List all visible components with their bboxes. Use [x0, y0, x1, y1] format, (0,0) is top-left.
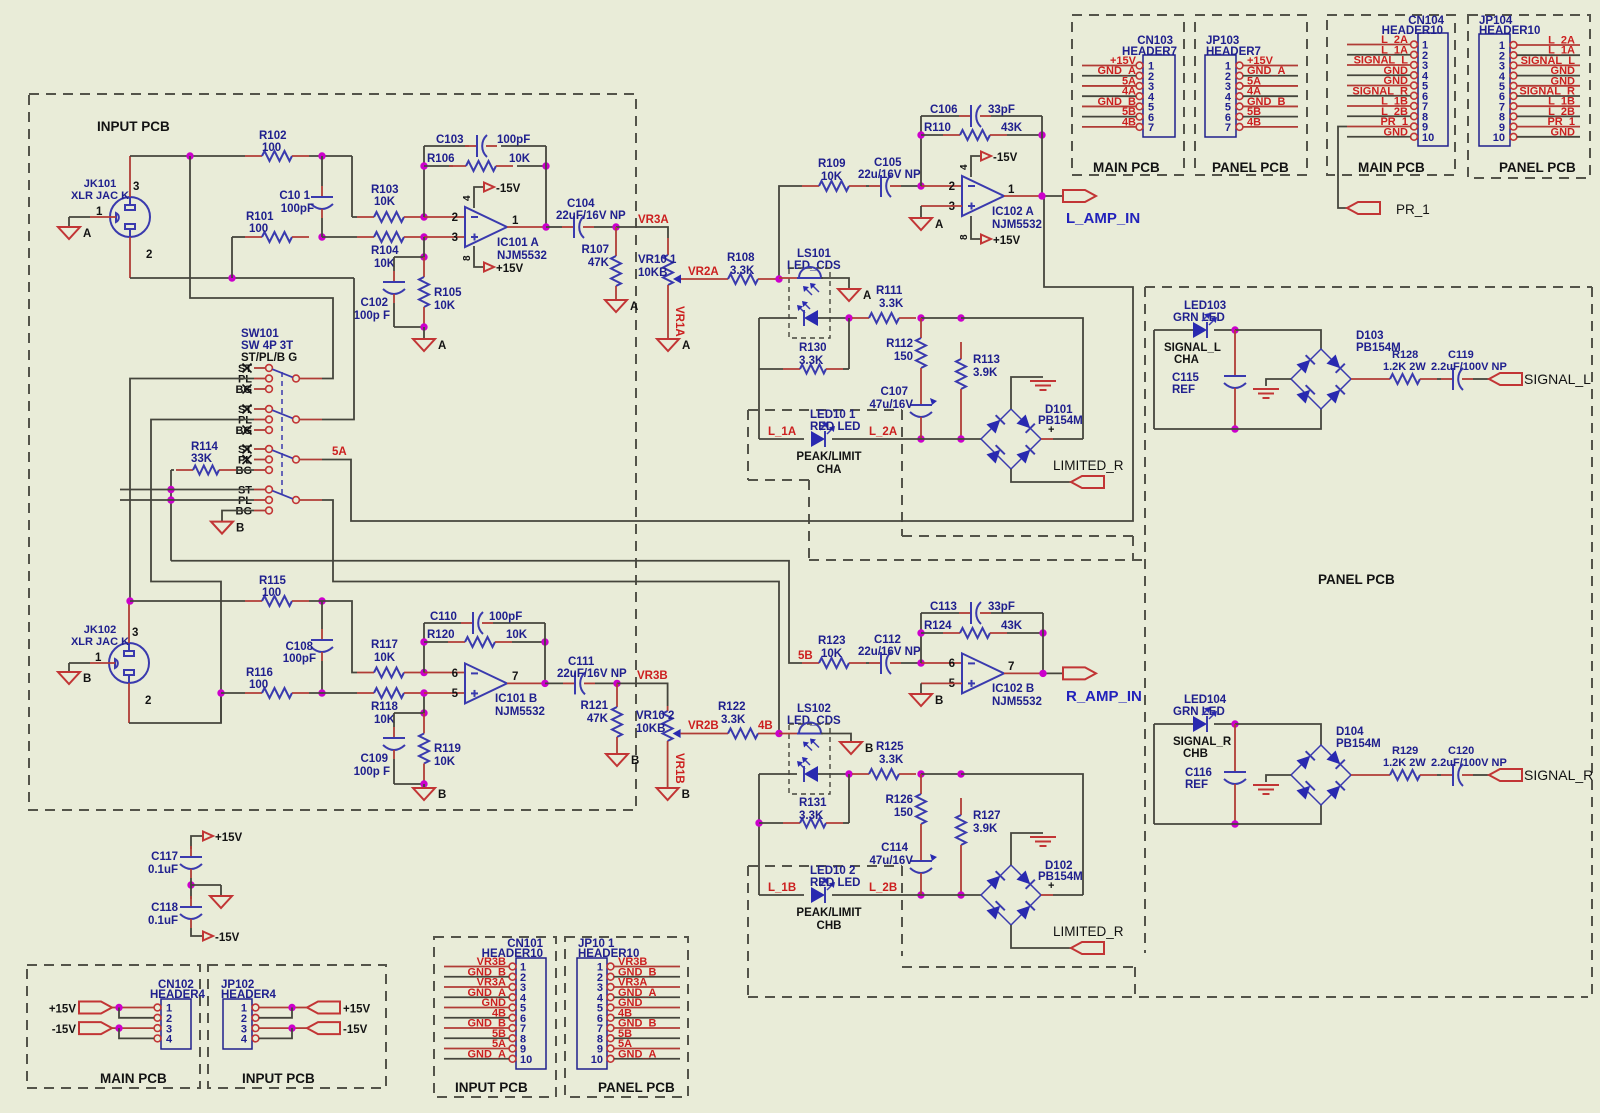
node R106 right: [542, 162, 549, 169]
label C119 2.2uF/100V NP: [1431, 349, 1507, 373]
label LED103 GRN LED: [1173, 300, 1226, 324]
optocoupler LS102 box: [789, 724, 830, 794]
node C104 right: [612, 223, 619, 230]
svg-text:43K: 43K: [1001, 620, 1023, 632]
svg-text:R104: R104: [371, 245, 399, 257]
node output IC101A: [542, 223, 549, 230]
header CN101: [516, 958, 546, 1069]
svg-text:R118: R118: [371, 701, 398, 713]
label D103 PB154M: [1356, 330, 1401, 354]
pin 9 JP101: [597, 1044, 680, 1056]
dashed box INPUT PCB: [29, 94, 636, 810]
labels ST PL BG section 2: [236, 404, 253, 437]
node C115 bottom: [1231, 425, 1238, 432]
resistor R105: [419, 257, 429, 327]
svg-text:R128: R128: [1392, 349, 1418, 361]
wire pin3 node to C102 R105: [394, 237, 424, 257]
dashed box INPUT PCB JP102: [208, 965, 386, 1088]
header JP102: [223, 999, 252, 1049]
svg-text:RED LED: RED LED: [810, 877, 860, 889]
svg-text:A: A: [863, 290, 871, 302]
svg-text:22u/16V NP: 22u/16V NP: [858, 169, 921, 181]
resistor R114: [171, 466, 254, 475]
node -15V CN102: [115, 1024, 122, 1031]
pin 1 JP101: [597, 962, 680, 974]
wire feedback right vertical: [545, 146, 547, 227]
svg-text:C118: C118: [151, 902, 178, 914]
node R105 bottom: [420, 323, 427, 330]
label CN103 HEADER7: [1122, 35, 1177, 58]
wire R112 to C107: [920, 388, 922, 394]
label R108 3.3K: [727, 252, 755, 277]
ground at C117 C118: [210, 896, 232, 908]
label IC102 A NJM5532: [992, 206, 1042, 231]
svg-text:R101: R101: [246, 211, 274, 223]
wire group4 PL throw: [120, 499, 254, 501]
ground B at IC102B: [910, 694, 943, 707]
resistor R124: [921, 628, 1043, 638]
pin 6 JP103: [1225, 112, 1298, 124]
wire pin3 stub: [424, 236, 465, 238]
power -15V at C118: [203, 932, 240, 945]
svg-text:SIGNAL_R: SIGNAL_R: [1524, 767, 1593, 783]
svg-text:C111: C111: [568, 656, 595, 668]
svg-text:LED10 1: LED10 1: [810, 409, 856, 421]
label LS102 LED_CDS: [787, 703, 841, 727]
svg-text:L_2B: L_2B: [869, 882, 897, 894]
svg-text:0.1uF: 0.1uF: [148, 915, 178, 927]
label LS101 LED_CDS: [787, 248, 841, 272]
label C108 100pF: [283, 641, 316, 665]
svg-text:100pF: 100pF: [281, 203, 314, 215]
label JK101: [71, 178, 129, 202]
svg-text:+15V: +15V: [49, 1004, 77, 1016]
pin 6 JP101: [597, 1013, 680, 1025]
svg-text:10: 10: [520, 1054, 532, 1066]
pin 4 JP104: [1499, 71, 1580, 83]
svg-text:BG: BG: [236, 465, 253, 477]
label R114 33K: [191, 441, 218, 465]
svg-text:10K: 10K: [434, 300, 456, 312]
wire R111 to R113 node: [921, 317, 961, 319]
svg-text:L_2A: L_2A: [869, 426, 897, 438]
svg-text:100: 100: [262, 142, 281, 154]
svg-text:4: 4: [959, 164, 970, 170]
ground B below R121: [606, 754, 639, 767]
svg-text:VR1B: VR1B: [673, 753, 685, 784]
node IC102A output: [1038, 192, 1045, 199]
svg-text:22uF/16V NP: 22uF/16V NP: [556, 210, 626, 222]
capacitor C115: [1224, 330, 1246, 429]
svg-text:IC102 A: IC102 A: [992, 206, 1034, 218]
resistor R106: [424, 161, 546, 171]
svg-text:3: 3: [949, 201, 955, 213]
svg-text:B: B: [682, 789, 690, 801]
dashed box PANEL PCB JP104: [1468, 15, 1590, 178]
wire bottom rail to bridge: [832, 438, 981, 440]
label R123 10K: [818, 635, 846, 660]
svg-text:SIGNAL_L: SIGNAL_L: [1164, 342, 1221, 354]
resistor R108: [711, 274, 775, 284]
svg-text:JK102: JK102: [84, 624, 116, 636]
wire panel L left rail: [1154, 330, 1235, 429]
pin 1 CN102: [154, 1003, 172, 1015]
wire IC102A pin4 power: [971, 156, 981, 177]
node R131 left: [755, 819, 762, 826]
pin 4 JP101: [597, 992, 680, 1004]
svg-text:3.3K: 3.3K: [879, 754, 904, 766]
label D104 PB154M: [1336, 726, 1381, 750]
dashed outline CHA limiter right step: [1132, 536, 1134, 560]
svg-text:LS101: LS101: [797, 248, 831, 260]
pin 2 JP102: [241, 1013, 259, 1025]
svg-text:R110: R110: [924, 122, 951, 134]
pin 8 JP101: [597, 1033, 680, 1045]
svg-text:4B: 4B: [1122, 116, 1136, 128]
label R125 3.3K: [876, 741, 904, 766]
pin 3 JP101: [597, 982, 680, 994]
svg-text:R122: R122: [718, 701, 746, 713]
wire IC102A output to flag: [1004, 195, 1063, 197]
node R110 right: [1038, 131, 1045, 138]
wire VR102 bottom to ground: [667, 746, 669, 788]
pin 2 CN103: [1082, 71, 1154, 83]
svg-text:2: 2: [452, 212, 458, 224]
dashed outline bottom long: [748, 996, 1588, 998]
wire group1 pole up to pin3 net: [190, 156, 333, 379]
wire R125 to R127 node: [921, 773, 961, 775]
label R124 43K: [924, 620, 1023, 632]
svg-text:+: +: [1048, 424, 1054, 436]
svg-text:SIGNAL_R: SIGNAL_R: [1173, 736, 1232, 748]
wire LED104 to C116 node: [1214, 723, 1235, 725]
pin 3 JP104: [1499, 61, 1580, 73]
svg-text:XLR JAC K: XLR JAC K: [71, 190, 129, 202]
svg-text:B: B: [865, 743, 873, 755]
svg-text:100: 100: [249, 679, 268, 691]
capacitor C113: [921, 602, 1043, 624]
node JK102 pin3: [126, 597, 133, 604]
svg-text:INPUT PCB: INPUT PCB: [455, 1080, 528, 1095]
svg-text:8: 8: [462, 255, 473, 261]
svg-text:47u/16V: 47u/16V: [870, 855, 914, 867]
wire pin2 stub: [424, 216, 465, 218]
pin 5 JP101: [597, 1003, 680, 1015]
node pin5 junction down: [420, 709, 427, 716]
wire R118 to pin5 node: [421, 692, 424, 694]
label R121 47K: [581, 700, 609, 725]
label R126 150: [886, 794, 914, 819]
svg-text:SW101: SW101: [241, 328, 279, 340]
svg-text:1: 1: [1008, 184, 1015, 196]
net flag SIGNAL_L: [1489, 373, 1522, 385]
switch SW101 section 4: [254, 486, 322, 514]
svg-text:-15V: -15V: [52, 1024, 77, 1036]
resistor R127: [956, 798, 966, 862]
LED of LS102: [797, 757, 818, 782]
pin 3 JP103: [1225, 81, 1298, 93]
wire group2 PL throw down to R116 node: [151, 420, 254, 724]
net flag L_AMP_IN: [1063, 190, 1096, 202]
node LED R131 junction: [845, 770, 852, 777]
capacitor C110: [424, 612, 545, 634]
svg-text:7: 7: [1225, 122, 1231, 134]
svg-text:7: 7: [1008, 661, 1014, 673]
svg-text:4B: 4B: [1247, 116, 1261, 128]
svg-text:NJM5532: NJM5532: [497, 250, 547, 262]
svg-text:NJM5532: NJM5532: [992, 219, 1042, 231]
pin 4 CN102: [154, 1034, 173, 1046]
svg-text:VR10 2: VR10 2: [636, 710, 674, 722]
wire into CDS B: [779, 733, 799, 735]
capacitor C120: [1437, 764, 1489, 786]
wire VR101 bottom to ground: [667, 302, 669, 339]
node -15V JP102: [288, 1024, 295, 1031]
svg-text:GND_A: GND_A: [618, 1048, 657, 1060]
label C114 47u/16V: [870, 842, 914, 867]
wire IC101A pin4 power: [474, 187, 484, 208]
gang dashed link SW101: [281, 372, 283, 496]
svg-text:C102: C102: [361, 297, 389, 309]
no-connect X PL section 3: [243, 455, 252, 464]
header CN104: [1418, 33, 1448, 146]
label C118 0.1uF: [148, 902, 179, 927]
svg-text:SIGNAL_L: SIGNAL_L: [1524, 371, 1591, 387]
power +15V at C117: [203, 832, 243, 845]
svg-text:C110: C110: [430, 611, 457, 623]
svg-text:C113: C113: [930, 601, 957, 613]
wire C118 bottom: [191, 928, 203, 936]
wire top rail to bridge drop: [961, 318, 1083, 439]
wire left rail to LS102 LED: [759, 773, 797, 775]
svg-text:3.3K: 3.3K: [799, 810, 824, 822]
label JP102 HEADER4: [221, 979, 277, 1001]
ground A at IC102A: [910, 218, 943, 231]
svg-text:B: B: [236, 523, 244, 535]
wire R115 right to corner: [309, 601, 357, 673]
svg-text:C117: C117: [151, 851, 178, 863]
label C111 22uF/16V NP: [557, 656, 627, 680]
svg-text:PR_1: PR_1: [1396, 202, 1430, 217]
svg-text:GRN LED: GRN LED: [1173, 706, 1225, 718]
dashed box MAIN PCB CN104: [1327, 15, 1455, 175]
svg-text:R129: R129: [1392, 745, 1418, 757]
labels ST PL BG section 1: [236, 363, 253, 396]
capacitor C102: [383, 257, 424, 327]
photoresistor LS101 CDS: [797, 267, 823, 295]
svg-text:10K: 10K: [434, 756, 456, 768]
wire feedback left vertical IC102A: [920, 116, 922, 186]
svg-text:R108: R108: [727, 252, 755, 264]
op-amp IC102B: [962, 653, 1004, 693]
svg-text:PB154M: PB154M: [1038, 415, 1083, 427]
svg-text:-15V: -15V: [993, 152, 1018, 164]
capacitor C118: [180, 896, 202, 928]
label CN102 HEADER4: [150, 979, 206, 1001]
node C114 bottom: [917, 891, 924, 898]
svg-text:PANEL PCB: PANEL PCB: [1499, 160, 1576, 175]
svg-text:10: 10: [1493, 132, 1505, 144]
resistor R112: [916, 318, 926, 388]
svg-text:VR3A: VR3A: [638, 214, 669, 226]
wire IC102A pin3 to ground: [921, 206, 962, 218]
op-amp IC102A: [962, 176, 1004, 216]
wire left rail vertical B: [758, 774, 760, 895]
wire R113 to bottom rail: [960, 406, 962, 439]
wire IC101B output: [507, 682, 545, 684]
wire R103 to pin2 node: [421, 216, 424, 218]
pin 2 JP104: [1499, 50, 1580, 62]
wire pin5 stub: [424, 692, 465, 694]
svg-text:R131: R131: [799, 797, 827, 809]
net flag LIMITED_R B: [1071, 942, 1104, 954]
pin 2 CN101: [444, 972, 526, 984]
svg-text:PANEL PCB: PANEL PCB: [1318, 572, 1395, 587]
svg-text:7: 7: [1148, 122, 1154, 134]
label LED101 RED LED: [810, 409, 860, 433]
ground B below SW101: [211, 522, 244, 535]
svg-text:10K: 10K: [374, 258, 396, 270]
resistor R101: [245, 232, 309, 242]
resistor R103: [357, 212, 421, 222]
ground B at LS102: [840, 742, 873, 755]
label CN101 HEADER10: [482, 938, 544, 960]
label C103 100pF: [436, 134, 530, 146]
pin 1 CN104: [1347, 40, 1428, 52]
label SIGNAL_L CHA: [1164, 342, 1221, 366]
wire JK102 pin1 to ground: [69, 663, 109, 672]
label R128 1.2K 2W: [1383, 349, 1426, 373]
power +15V IC102A: [981, 235, 1021, 248]
label R118 10K: [371, 701, 398, 726]
svg-text:3.9K: 3.9K: [973, 823, 998, 835]
svg-text:GND_A: GND_A: [467, 1048, 506, 1060]
node R120 right: [541, 638, 548, 645]
node C115 top: [1231, 326, 1238, 333]
svg-text:IC101 B: IC101 B: [495, 693, 537, 705]
svg-text:R106: R106: [427, 153, 455, 165]
wire wiper to R108: [681, 278, 711, 280]
pin 3 JP102: [241, 1023, 259, 1035]
node LED R130 junction: [845, 314, 852, 321]
net flag +15V JP102: [307, 1002, 340, 1014]
wire feedback right vertical IC102B: [1042, 613, 1044, 673]
svg-text:JK101: JK101: [84, 178, 116, 190]
node 4B LS102: [775, 730, 782, 737]
pin 7 CN101: [444, 1023, 526, 1035]
svg-text:L_AMP_IN: L_AMP_IN: [1066, 210, 1140, 227]
label C115 REF: [1172, 372, 1199, 396]
capacitor C108: [311, 601, 333, 693]
label D102 PB154M: [1038, 860, 1083, 883]
svg-text:10K: 10K: [821, 648, 843, 660]
wire pin6 stub: [424, 672, 465, 674]
svg-text:MAIN PCB: MAIN PCB: [1358, 160, 1425, 175]
wire C107 to bottom rail: [920, 426, 922, 439]
dashed outline CHA limiter right: [901, 410, 903, 536]
svg-text:C115: C115: [1172, 372, 1199, 384]
svg-text:IC101 A: IC101 A: [497, 237, 539, 249]
svg-text:100pF: 100pF: [497, 134, 530, 146]
svg-text:+15V: +15V: [496, 263, 524, 275]
node R102 right C101 top: [318, 152, 325, 159]
label R112 150: [886, 338, 913, 363]
node IC102B output: [1039, 670, 1046, 677]
node output IC101B: [541, 680, 548, 687]
resistor R130: [759, 365, 849, 374]
wire R101 to R104: [322, 236, 357, 238]
svg-text:10K: 10K: [509, 153, 531, 165]
node R119 bottom: [420, 780, 427, 787]
svg-text:LED104: LED104: [1184, 694, 1227, 706]
svg-text:R103: R103: [371, 184, 399, 196]
svg-text:PB154M: PB154M: [1336, 738, 1381, 750]
LED104: [1193, 707, 1217, 732]
svg-text:-15V: -15V: [496, 183, 521, 195]
node C117 C118: [187, 881, 194, 888]
svg-text:L_1A: L_1A: [768, 426, 796, 438]
svg-text:47K: 47K: [588, 257, 610, 269]
svg-text:4: 4: [241, 1034, 248, 1046]
wire +15V to pin1: [112, 1007, 154, 1009]
svg-text:NJM5532: NJM5532: [495, 706, 545, 718]
wire R127 to bottom rail: [960, 862, 962, 895]
svg-text:+15V: +15V: [343, 1004, 371, 1016]
wire top rail to bridge D104: [1235, 724, 1321, 745]
label C104 22uF/16V NP: [556, 198, 626, 222]
label C117 0.1uF: [148, 851, 178, 876]
pin 5 JP104: [1499, 81, 1580, 93]
node R113 bottom: [957, 435, 964, 442]
wire VR3B to VR102: [617, 683, 668, 706]
svg-text:LIMITED_R: LIMITED_R: [1053, 458, 1124, 473]
svg-text:LED_CDS: LED_CDS: [787, 260, 841, 272]
svg-text:B: B: [83, 673, 91, 685]
no-connect X ST section 3: [243, 445, 252, 454]
dashed outline CHA limiter left: [747, 410, 749, 480]
svg-text:10K: 10K: [374, 196, 396, 208]
label SW101: [241, 328, 297, 364]
node C116 bottom: [1231, 820, 1238, 827]
svg-text:R117: R117: [371, 639, 398, 651]
wire bottom rail to bridge D104: [1235, 805, 1321, 824]
svg-text:R109: R109: [818, 158, 846, 170]
wire D101 top to ground: [1011, 377, 1043, 409]
svg-text:R107: R107: [582, 244, 610, 256]
wire D102 top to ground: [1011, 833, 1043, 865]
bridge rectifier D104: [1291, 745, 1351, 805]
wire to R116: [221, 692, 245, 694]
wire mid node: [191, 878, 221, 899]
wire D103 left to ground: [1266, 379, 1291, 386]
resistor R104: [357, 232, 421, 242]
svg-text:3: 3: [452, 232, 458, 244]
svg-text:5: 5: [452, 688, 459, 700]
pin 2 JP103: [1225, 71, 1298, 83]
wire pin3 JP102 to -15V: [259, 1027, 307, 1029]
wire pin3 row to R102: [130, 155, 245, 157]
dashed box PANEL PCB right: [1145, 287, 1592, 997]
wire JK101 pin1 to ground: [69, 217, 110, 227]
resistor R123: [802, 658, 866, 668]
ground bars at D104: [1253, 785, 1279, 794]
node R120 left: [420, 638, 427, 645]
svg-text:MAIN PCB: MAIN PCB: [1093, 160, 1160, 175]
label R117 10K: [371, 639, 398, 664]
wire IC101A output: [507, 226, 546, 228]
svg-text:R126: R126: [886, 794, 914, 806]
op-amp IC101A: [465, 207, 507, 247]
